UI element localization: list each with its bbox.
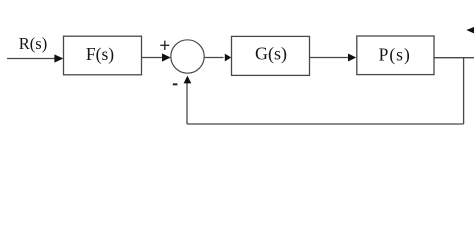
block P(s) bbox=[357, 36, 434, 75]
wire G(s) to P(s) bbox=[310, 57, 349, 59]
svg-text:F(s): F(s) bbox=[86, 44, 114, 64]
wire F(s) to summing junction bbox=[142, 57, 164, 59]
summing junction U1 bbox=[171, 40, 204, 73]
wire feedback bottom horizontal bbox=[187, 123, 464, 125]
svg-text:P(s): P(s) bbox=[379, 44, 411, 64]
clipped arrowhead at top-right corner bbox=[466, 27, 474, 33]
wire input arrow from R(s) to F(s) bbox=[7, 58, 56, 60]
wire feedback right vertical bbox=[463, 58, 465, 124]
svg-text:G(s): G(s) bbox=[255, 43, 287, 64]
wire summing junction to G(s) bbox=[204, 57, 224, 59]
plus sign bbox=[160, 41, 169, 50]
minus sign bbox=[173, 83, 178, 85]
svg-text:R(s): R(s) bbox=[19, 34, 47, 53]
wire output from P(s) to right edge bbox=[434, 57, 474, 59]
block G(s) bbox=[232, 36, 310, 75]
block F(s) bbox=[64, 36, 142, 75]
wire feedback left vertical up to summing junction bbox=[186, 82, 188, 124]
